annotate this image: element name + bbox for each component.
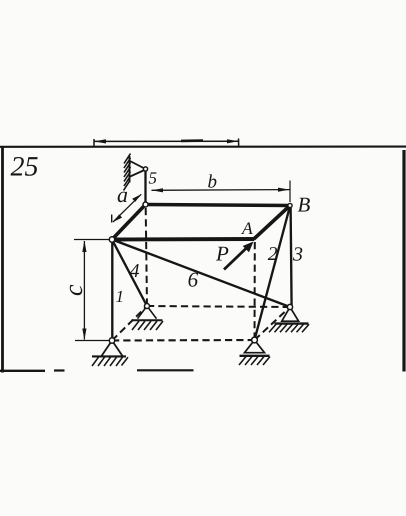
label 6 xyxy=(188,268,199,292)
plate edge D-A xyxy=(112,237,254,241)
support BR ground xyxy=(269,324,309,333)
rod 1 xyxy=(111,240,113,341)
dashed base back BL-BR xyxy=(147,306,290,307)
dimension b label xyxy=(208,172,218,193)
support BR triangle xyxy=(282,307,299,321)
dimension c top extension xyxy=(74,239,110,241)
plate edge node5-B xyxy=(146,205,291,206)
support BL triangle xyxy=(138,306,157,319)
node pin5 xyxy=(143,167,147,171)
svg-text:2: 2 xyxy=(268,244,278,265)
frame border bottom segments xyxy=(0,369,194,372)
label 2 xyxy=(268,244,278,265)
plate edge A-B xyxy=(254,206,291,240)
dashed projection node5 to BL xyxy=(146,208,147,306)
dashed base left FL-BL xyxy=(112,306,147,341)
node D xyxy=(109,237,114,242)
wall line xyxy=(129,156,131,183)
rod 2 xyxy=(255,206,291,340)
svg-text:25: 25 xyxy=(11,152,39,183)
label 5 xyxy=(149,169,158,188)
figure number 25 xyxy=(11,152,39,183)
support FL triangle xyxy=(102,341,123,357)
rod 5 xyxy=(144,169,146,205)
support FL ground xyxy=(92,356,128,366)
frame border left xyxy=(1,147,4,373)
svg-text:1: 1 xyxy=(116,287,125,306)
dashed base right FR-BR xyxy=(255,307,291,340)
support FR ground xyxy=(239,356,270,365)
label B xyxy=(298,192,311,216)
plate edge node5-D xyxy=(112,205,146,240)
svg-text:3: 3 xyxy=(292,244,303,266)
svg-text:P: P xyxy=(215,241,229,265)
svg-text:b: b xyxy=(208,172,218,193)
frame border right xyxy=(402,150,405,372)
rod 3 xyxy=(291,206,292,307)
dimension c bottom extension xyxy=(75,340,109,342)
dashed projection A to FR xyxy=(254,242,256,340)
node BR xyxy=(287,304,292,309)
svg-text:A: A xyxy=(241,218,253,238)
node FL xyxy=(109,338,114,343)
wall bracket xyxy=(129,161,145,178)
force P arrow xyxy=(224,242,254,270)
dashed base front FL-FR xyxy=(112,339,255,342)
dimension c label xyxy=(59,284,88,296)
label A xyxy=(241,218,253,238)
node B xyxy=(288,203,292,207)
node BL xyxy=(145,304,150,309)
label 3 xyxy=(292,244,303,266)
dimension b line xyxy=(152,188,290,193)
frame border top xyxy=(0,146,406,148)
svg-text:B: B xyxy=(298,192,311,216)
dimension a label xyxy=(117,182,128,207)
dimension b extension line at B xyxy=(289,181,291,203)
rod 4 xyxy=(112,240,147,307)
node 5lower xyxy=(143,202,148,207)
svg-text:6: 6 xyxy=(188,268,199,292)
force P label xyxy=(215,241,229,265)
svg-text:c: c xyxy=(59,284,88,296)
support FR triangle xyxy=(245,340,265,353)
svg-text:5: 5 xyxy=(149,169,158,188)
cropped dimension artifact above frame xyxy=(94,139,239,148)
dimension c line xyxy=(82,241,86,341)
dimension a line xyxy=(112,194,142,222)
wall hatching xyxy=(124,154,131,191)
rod 6 xyxy=(112,240,290,308)
node FR xyxy=(252,337,258,343)
label 4 xyxy=(130,261,140,282)
svg-text:4: 4 xyxy=(130,261,140,282)
svg-text:a: a xyxy=(117,182,128,207)
label 1 xyxy=(116,287,125,306)
support BL ground xyxy=(132,320,164,330)
